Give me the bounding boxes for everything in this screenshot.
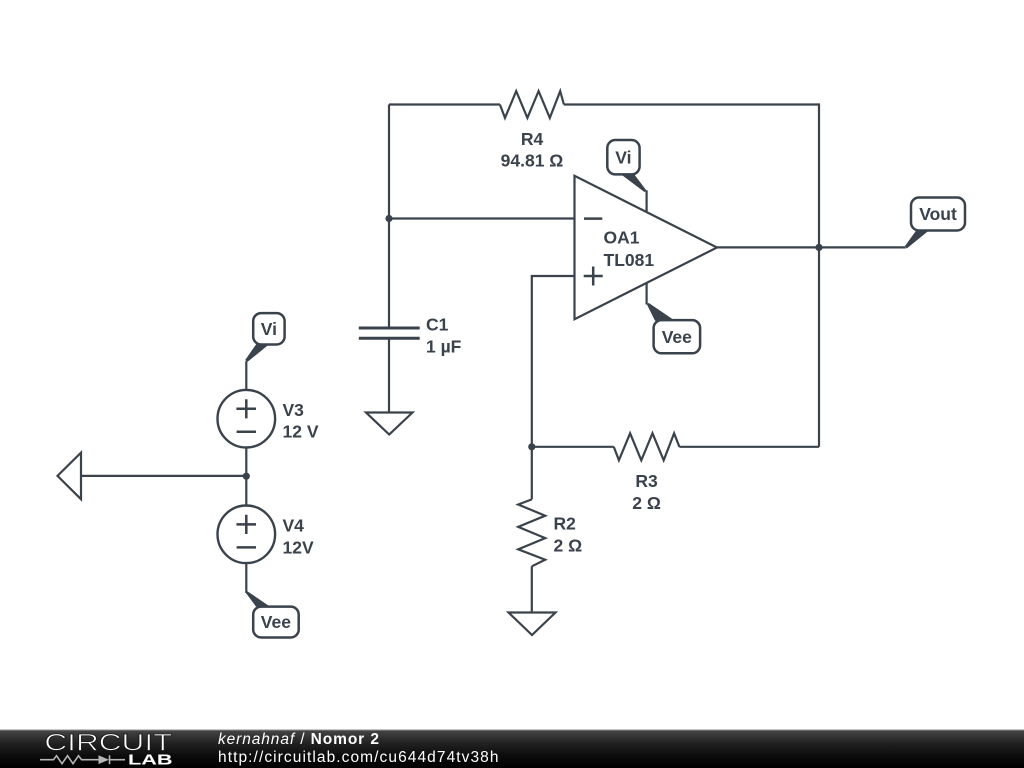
svg-text:R4: R4 — [521, 129, 544, 149]
svg-text:V4: V4 — [283, 516, 305, 536]
svg-text:12V: 12V — [283, 537, 314, 557]
svg-text:1 µF: 1 µF — [426, 337, 462, 357]
svg-text:94.81 Ω: 94.81 Ω — [501, 150, 564, 170]
svg-text:Vi: Vi — [615, 148, 631, 168]
svg-text:TL081: TL081 — [604, 250, 655, 270]
svg-text:2 Ω: 2 Ω — [632, 493, 661, 513]
svg-text:OA1: OA1 — [604, 227, 640, 247]
svg-text:12 V: 12 V — [283, 422, 319, 442]
svg-text:Vee: Vee — [662, 327, 692, 347]
svg-text:LAB: LAB — [128, 753, 173, 768]
svg-text:http://circuitlab.com/cu644d74: http://circuitlab.com/cu644d74tv38h — [218, 749, 499, 766]
svg-text:kernahnaf / Nomor 2: kernahnaf / Nomor 2 — [218, 731, 380, 748]
svg-text:V3: V3 — [283, 400, 305, 420]
svg-text:2 Ω: 2 Ω — [554, 535, 583, 555]
svg-text:R2: R2 — [554, 514, 577, 534]
svg-text:Vee: Vee — [261, 612, 291, 632]
svg-text:R3: R3 — [635, 471, 658, 491]
svg-text:C1: C1 — [426, 314, 449, 334]
svg-text:Vout: Vout — [919, 204, 957, 224]
svg-text:Vi: Vi — [261, 319, 277, 339]
